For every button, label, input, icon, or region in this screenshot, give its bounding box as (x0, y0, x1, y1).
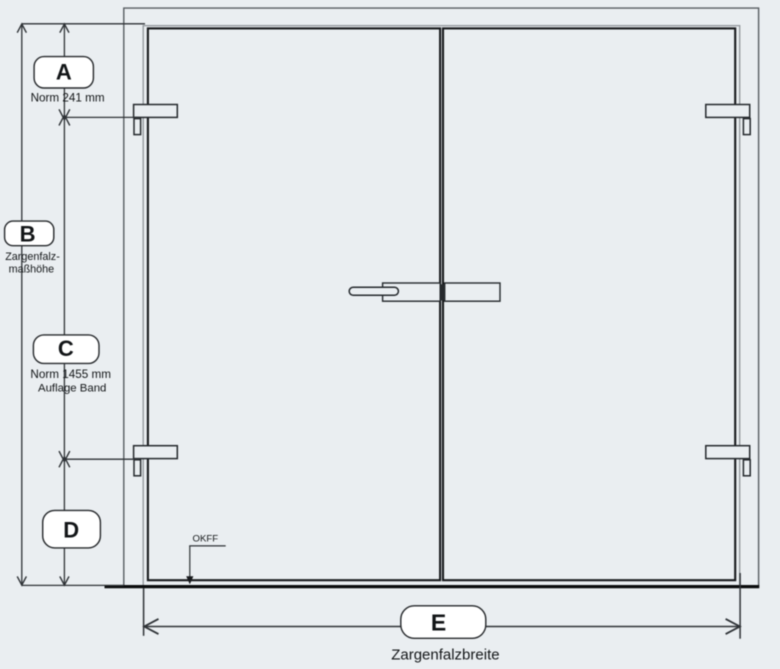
dimension line inner vertical (A C D) (63, 24, 65, 586)
badge E (401, 606, 486, 639)
svg-text:maßhöhe: maßhöhe (9, 263, 55, 275)
arrow down outer bottom (17, 576, 26, 585)
dimension line E horizontal (145, 626, 741, 628)
dimension line outer vertical (B) (21, 24, 23, 586)
arrow up inner top (60, 24, 69, 33)
badge A (34, 57, 93, 88)
left door leaf (148, 28, 440, 580)
floor line (105, 585, 760, 588)
dimension tick bottom horizontal (22, 584, 124, 586)
label Norm 1455 mm Auflage Band (30, 368, 111, 395)
arrow pair A/B boundary (59, 109, 70, 125)
svg-text:C: C (58, 336, 74, 361)
svg-text:D: D (63, 517, 79, 542)
right door leaf (443, 28, 735, 580)
svg-text:Zargenfalz-: Zargenfalz- (5, 251, 60, 263)
svg-text:A: A (56, 60, 72, 85)
hinge bottom left (134, 446, 178, 476)
lock plate left leaf (383, 283, 441, 301)
dimension tick top horizontal (22, 23, 145, 25)
label Zargenfalzmasshoehe (5, 251, 60, 275)
dimension tick C/D boundary (64, 458, 139, 460)
door handle lever (349, 287, 398, 295)
dimension tick A/B boundary (64, 116, 139, 118)
hinge top left (134, 105, 178, 135)
badge C (33, 335, 99, 364)
OKFF leader and label (186, 533, 226, 584)
arrow E left (144, 619, 158, 634)
badge D (43, 510, 101, 548)
svg-text:Norm 241 mm: Norm 241 mm (31, 91, 105, 104)
hinge top right (706, 105, 750, 135)
lock bolt between leaves (439, 284, 445, 300)
badge B (5, 221, 54, 246)
arrow pair C/D boundary (59, 451, 70, 467)
svg-text:B: B (20, 221, 36, 246)
lock plate right leaf (445, 283, 500, 301)
extension line E right (739, 573, 741, 639)
door frame (Zarge) outer outline (124, 8, 759, 586)
label Norm 241 mm (31, 91, 105, 104)
svg-text:Auflage Band: Auflage Band (38, 383, 106, 395)
arrow up outer top (17, 24, 26, 33)
hinge bottom right (706, 446, 750, 476)
svg-text:Norm 1455 mm: Norm 1455 mm (30, 368, 111, 381)
svg-text:E: E (431, 610, 446, 636)
arrow E right (726, 619, 740, 634)
arrow down inner bottom (60, 576, 69, 585)
svg-text:Zargenfalzbreite: Zargenfalzbreite (391, 646, 499, 663)
extension line E left (143, 588, 145, 636)
svg-text:OKFF: OKFF (193, 533, 219, 544)
label Zargenfalzbreite (391, 646, 499, 663)
frame rebate line (Zargenfalz) (143, 26, 740, 586)
